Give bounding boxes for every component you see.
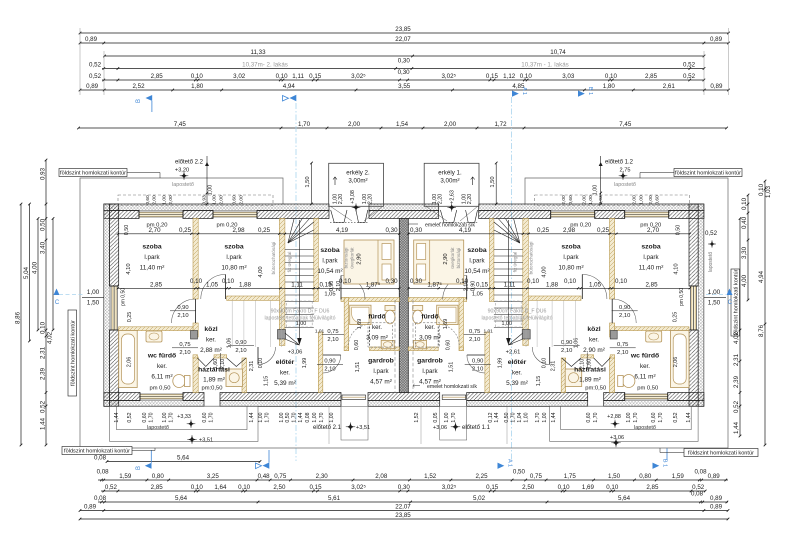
partition kozl-haztartasi p1 right [610,355,615,358]
canopy elotetto 2.2 annotation [175,156,214,205]
svg-text:5,64: 5,64 [175,495,188,502]
svg-text:pm 0,50: pm 0,50 [121,288,127,306]
shower furdo right [437,305,458,324]
svg-text:1,70: 1,70 [658,412,664,422]
svg-text:+3,20: +3,20 [175,168,189,174]
svg-text:8,86: 8,86 [15,311,22,324]
dimension line top 11,33 / 10,74 [103,49,705,57]
svg-text:0,60: 0,60 [655,195,661,205]
svg-text:3,09 m²: 3,09 m² [366,335,388,342]
balcony erkely 1 right [424,163,479,221]
column right 2 [522,330,530,340]
svg-text:2,25: 2,25 [475,473,488,480]
svg-text:szoba: szoba [320,247,339,254]
right margin detail chain [741,194,749,302]
svg-text:0,30: 0,30 [385,227,398,234]
svg-text:1,80: 1,80 [191,83,204,90]
svg-text:üvegkorlát: üvegkorlát [350,247,355,269]
dimension line top 23,85 [79,26,730,34]
svg-text:l.park: l.park [563,254,579,261]
level mark canopy right lower [613,439,620,446]
svg-text:2,88 m²: 2,88 m² [200,347,222,354]
column right 1 [610,331,617,340]
section marker C right [706,289,733,307]
svg-text:2,50: 2,50 [273,484,286,491]
svg-text:4,10: 4,10 [674,263,680,274]
level mark balcony right [449,204,455,210]
svg-text:biztonsági: biztonsági [344,248,349,269]
svg-text:3,25: 3,25 [207,473,220,480]
svg-text:bútorozhatósági: bútorozhatósági [529,242,534,275]
section marker pair top [283,95,297,101]
room label előtér [274,359,296,387]
svg-text:2,10: 2,10 [336,281,342,292]
svg-text:2,90: 2,90 [357,253,363,264]
svg-text:1,70: 1,70 [319,412,325,422]
svg-text:0,89: 0,89 [708,473,721,480]
partition szoba3 bottom right [408,298,466,302]
svg-text:0,90: 0,90 [324,359,335,365]
shower furdo left [350,305,371,324]
svg-text:1,88: 1,88 [546,282,559,289]
partition szoba wall right a [610,219,615,300]
svg-text:1,44: 1,44 [249,412,255,422]
door szoba3 right [443,276,467,300]
left margin chain 4,00 [32,217,40,331]
svg-text:0,52: 0,52 [89,73,102,80]
svg-text:0,89: 0,89 [710,504,723,511]
partition kozl-haztartasi p2 right [581,355,594,358]
svg-text:0,75: 0,75 [617,342,628,348]
extension lines kozl right [526,301,576,348]
svg-text:3,02⁵: 3,02⁵ [441,73,456,80]
svg-text:2,85: 2,85 [151,73,164,80]
svg-text:emelet homlokzati sík: emelet homlokzati sík [427,384,477,390]
svg-text:0,10: 0,10 [191,73,204,80]
window left wall [110,286,119,330]
svg-text:2,39: 2,39 [40,367,47,380]
svg-text:1,00: 1,00 [87,289,100,296]
svg-text:1,04: 1,04 [517,412,523,422]
svg-text:földszint homlokzati kontúr: földszint homlokzati kontúr [64,449,130,455]
svg-text:pm 0,50: pm 0,50 [679,288,685,306]
dimension line top 22,07 [79,36,730,44]
svg-text:0,15: 0,15 [486,73,499,80]
svg-text:2,10: 2,10 [617,350,628,356]
bathtub wc furdo left [119,331,138,388]
svg-text:1,01: 1,01 [315,329,325,335]
svg-text:1,70: 1,70 [633,412,639,422]
svg-text:5,39 m²: 5,39 m² [506,380,528,387]
svg-text:0,52: 0,52 [733,400,740,413]
svg-text:B 1: B 1 [587,87,593,95]
svg-text:l.park: l.park [373,368,389,375]
svg-text:2,20: 2,20 [338,194,344,205]
svg-text:0,08: 0,08 [97,469,110,476]
svg-text:+3,51: +3,51 [199,438,213,444]
level mark canopy left upper [188,421,194,427]
svg-text:4,00: 4,00 [258,266,264,277]
fakro skylight note right [482,309,553,322]
svg-text:2,85: 2,85 [645,282,658,289]
svg-text:ker.: ker. [157,363,167,370]
section marker A1 bottom [498,459,513,469]
svg-text:wc fürdő: wc fürdő [147,353,176,360]
svg-text:0,75: 0,75 [274,473,287,480]
svg-text:2,00: 2,00 [168,195,174,205]
svg-text:B: B [136,99,142,103]
svg-text:11,40 m²: 11,40 m² [639,265,664,272]
svg-text:1,44: 1,44 [686,412,692,422]
svg-text:előtető 1.2: előtető 1.2 [605,160,634,166]
svg-text:l.park: l.park [643,254,659,261]
svg-text:2,06: 2,06 [673,357,679,368]
svg-text:földszint homlokzati kontúr: földszint homlokzati kontúr [71,320,77,386]
svg-text:5,39 m²: 5,39 m² [274,380,296,387]
svg-text:1,75: 1,75 [564,473,577,480]
dimension line top segment chain [79,83,730,91]
svg-text:4,00: 4,00 [741,274,748,287]
flat roof dashed outline left [118,182,273,206]
emelet homlokzati sik dashed line left [394,300,396,393]
svg-text:1,70: 1,70 [209,412,215,422]
svg-text:4,02: 4,02 [47,331,54,344]
level mark eloter left [288,350,303,356]
window szoba right-2 top [551,211,595,219]
svg-text:ker.: ker. [512,370,522,377]
label kozepszint homlokzati kontur left rotated [68,310,77,396]
svg-text:23,85: 23,85 [395,26,411,33]
partition szoba wall left a [193,219,198,300]
svg-text:l.park: l.park [322,258,338,265]
svg-text:1,70: 1,70 [511,412,517,422]
svg-text:0,15: 0,15 [486,484,499,491]
svg-text:0,30: 0,30 [398,69,411,76]
svg-text:0,50: 0,50 [124,225,130,236]
section marker A1 top [512,87,527,97]
svg-text:B: B [136,466,142,470]
svg-text:3,02: 3,02 [233,73,246,80]
svg-text:0,10: 0,10 [40,321,47,334]
section marker B bottom [136,450,152,470]
svg-text:0,89: 0,89 [86,83,99,90]
level mark eloter right [506,350,521,356]
svg-text:pm 0,20: pm 0,20 [147,223,168,229]
svg-text:0,89: 0,89 [710,495,723,502]
extension lines kozl left [232,301,282,348]
svg-text:0,60: 0,60 [142,412,148,422]
svg-text:2,85: 2,85 [645,73,658,80]
stair skylight dashed right [496,301,522,327]
balcony height dim right [490,162,498,206]
svg-text:A 1: A 1 [507,459,513,467]
room label szoba [317,247,342,275]
svg-text:előtér: előtér [508,359,527,366]
svg-text:0,08: 0,08 [694,469,707,476]
door szoba3 left [341,276,365,300]
svg-text:11,40 m²: 11,40 m² [140,265,165,272]
svg-text:2,10: 2,10 [235,348,246,354]
svg-text:0,48: 0,48 [258,473,271,480]
partition furdo-gardrob left e [370,347,400,351]
svg-text:1,00: 1,00 [162,412,168,422]
svg-text:2,00: 2,00 [648,195,654,205]
svg-text:0,52: 0,52 [89,62,102,69]
svg-text:0,15: 0,15 [309,73,322,80]
svg-text:1,59: 1,59 [119,473,132,480]
svg-text:2,10: 2,10 [619,313,630,319]
window wc furdo right bottom [625,393,668,401]
svg-text:1,60: 1,60 [587,359,593,370]
svg-text:4,94: 4,94 [758,270,765,283]
room label szoba [639,244,664,272]
room label közl [583,326,605,354]
dimension line bottom 22,07 [79,504,730,512]
svg-text:1,44: 1,44 [494,412,500,422]
svg-text:C: C [55,300,60,306]
room label gardrob [368,358,394,386]
svg-text:fürdő: fürdő [421,314,438,321]
svg-text:1,70: 1,70 [451,412,457,422]
label foldszint homlokzati kontur right rotated [731,269,740,336]
accordion door haztartasi right 1 [594,358,611,367]
stair skylight dashed left [287,301,313,327]
svg-text:0,10: 0,10 [558,484,571,491]
emelet homlokzati sik dashed line right [412,300,414,393]
door szoba2 right [582,274,607,299]
svg-text:+3,08: +3,08 [350,190,356,204]
svg-text:B 1: B 1 [662,459,668,467]
svg-text:2,20: 2,20 [467,194,473,205]
svg-text:1,64: 1,64 [214,484,227,491]
svg-text:1,00: 1,00 [708,289,721,296]
svg-text:pm:0,50: pm:0,50 [202,386,223,392]
svg-text:l.park: l.park [422,368,438,375]
svg-text:0,30: 0,30 [410,278,423,285]
svg-text:1,50: 1,50 [305,176,311,187]
svg-text:pm 0,20: pm 0,20 [640,223,661,229]
svg-text:4,02: 4,02 [733,331,740,344]
dimension line top lakas widths [89,58,705,70]
sink wc furdo left [146,331,162,342]
svg-text:10,54 m²: 10,54 m² [464,268,489,275]
svg-text:0,75: 0,75 [327,329,338,335]
svg-text:lapostető: lapostető [614,182,636,188]
parapet labels bottom [150,386,659,392]
svg-text:1,00: 1,00 [588,195,594,205]
svg-text:2,10: 2,10 [179,350,190,356]
svg-text:1,11: 1,11 [504,282,516,289]
svg-text:1,00: 1,00 [161,195,167,205]
left margin detail chain [40,159,48,447]
svg-text:A 1: A 1 [521,87,527,95]
svg-text:0,90: 0,90 [235,340,246,346]
svg-text:l.park: l.park [144,254,160,261]
svg-text:22,07: 22,07 [395,36,411,43]
svg-text:biztonsági: biztonsági [456,248,461,269]
svg-text:1,80: 1,80 [603,83,616,90]
svg-text:0,10: 0,10 [520,73,533,80]
svg-text:2,00: 2,00 [152,195,158,205]
dimension line bottom detail chain 1 [97,469,728,482]
svg-text:bútorozhatósági: bútorozhatósági [271,242,276,275]
washing machine left [226,369,243,387]
svg-text:2,52: 2,52 [132,83,145,90]
svg-text:1,44: 1,44 [733,421,740,434]
accordion door haztartasi left 1 [198,358,215,367]
svg-text:0,25: 0,25 [258,227,271,234]
svg-text:ker.: ker. [640,363,650,370]
dimension line top detail chain [89,69,705,81]
svg-text:0,50: 0,50 [40,218,47,231]
svg-text:0,40: 0,40 [741,216,748,229]
door furdo left [349,325,370,346]
partition furdo-gardrob right e [408,347,438,351]
svg-text:wc fürdő: wc fürdő [630,353,659,360]
svg-text:10,74: 10,74 [550,49,566,56]
svg-text:1,15: 1,15 [536,376,542,387]
svg-text:0,25: 0,25 [179,227,192,234]
partition wc wall upper right [610,323,615,337]
svg-text:2,31: 2,31 [733,353,740,366]
svg-text:0,10: 0,10 [258,358,264,369]
svg-text:0,50: 0,50 [676,225,682,236]
svg-text:0,25: 0,25 [597,227,610,234]
balcony door right unit [440,210,456,223]
svg-text:3,30: 3,30 [741,246,748,259]
svg-text:fürdő: fürdő [368,314,385,321]
svg-text:2,20: 2,20 [438,194,444,205]
svg-text:0,52: 0,52 [683,73,696,80]
svg-text:2,85: 2,85 [646,484,659,491]
svg-text:ker.: ker. [206,337,216,344]
svg-text:0,05: 0,05 [433,412,439,422]
partition furdo side right [459,298,464,351]
svg-text:1,00: 1,00 [329,412,335,422]
glass rail note right [450,242,534,275]
porch elotetto 2.1 outline [341,406,368,440]
entrance door right [442,395,466,400]
svg-text:2,31: 2,31 [249,361,255,372]
level mark balcony left [353,204,359,210]
label foldszint homlokzati kontur top-right [674,169,742,177]
toilet wc furdo left [173,375,185,388]
svg-text:2,10: 2,10 [464,281,470,292]
svg-text:szoba: szoba [561,244,580,251]
svg-text:2,10: 2,10 [580,359,586,370]
svg-text:2,00: 2,00 [561,195,567,205]
svg-text:lapostető tetőablak felülvilág: lapostető tetőablak felülvilágító [482,316,553,322]
toilet wc furdo right [623,375,635,388]
svg-text:1,87⁵: 1,87⁵ [366,282,381,289]
svg-text:10,54 m²: 10,54 m² [317,268,342,275]
svg-text:1,00: 1,00 [444,412,450,422]
svg-text:0,50: 0,50 [504,412,510,422]
svg-text:0,25: 0,25 [673,312,679,323]
svg-text:0,89: 0,89 [84,504,97,511]
partition szoba1-wc left [119,327,193,331]
svg-text:1,05: 1,05 [589,282,602,289]
svg-text:0,60: 0,60 [568,195,574,205]
svg-text:1,51: 1,51 [355,362,361,373]
room label fürdő [366,314,388,342]
svg-text:fix üvegfal: fix üvegfal [287,252,292,273]
svg-text:2,31: 2,31 [551,361,557,372]
svg-text:3,02⁵: 3,02⁵ [351,73,366,80]
room label közl [200,326,222,354]
svg-text:0,90: 0,90 [177,305,188,311]
label elotetto 2.1 [313,425,370,431]
svg-text:l.park: l.park [226,254,242,261]
svg-text:földszint homlokzati kontúr: földszint homlokzati kontúr [60,171,126,177]
svg-text:1,00: 1,00 [626,412,632,422]
central party wall [399,219,408,393]
svg-text:0,60: 0,60 [202,412,208,422]
left margin chain 4,02 [47,217,55,344]
sink wc furdo right [646,331,662,342]
balcony erkely 2 left [329,163,384,221]
svg-text:0,10: 0,10 [758,183,765,196]
svg-text:0,25: 0,25 [537,227,550,234]
svg-text:1,05: 1,05 [324,292,335,298]
svg-text:3,55: 3,55 [398,83,411,90]
porch elotetto 1.1 outline [440,406,467,440]
svg-text:3,09 m²: 3,09 m² [419,335,441,342]
section line A1 [295,103,297,461]
svg-text:lapostető: lapostető [172,182,194,188]
svg-text:közl: közl [587,326,600,333]
svg-text:2,10: 2,10 [220,359,226,370]
svg-text:1,89 m²: 1,89 m² [203,377,225,384]
svg-text:1,00: 1,00 [212,195,218,205]
balcony door left unit [331,210,347,223]
svg-text:0,75: 0,75 [469,329,480,335]
svg-text:10,37m - 1. lakás: 10,37m - 1. lakás [521,62,568,69]
svg-text:0,10: 0,10 [741,197,748,210]
column left 2 [278,330,286,340]
label foldszint homlokzati kontur bottom-right [684,449,758,457]
svg-text:0,10: 0,10 [542,358,548,369]
svg-text:+3,51: +3,51 [356,425,370,431]
glass rail note left [271,242,355,275]
svg-text:4,10: 4,10 [126,263,132,274]
svg-text:0,52: 0,52 [127,412,133,422]
svg-text:8,76: 8,76 [758,324,765,337]
svg-text:pm 0,50: pm 0,50 [637,386,658,392]
svg-text:ker.: ker. [372,324,382,331]
svg-text:2,10: 2,10 [472,367,483,373]
door gardrob left [323,355,341,373]
svg-text:0,10: 0,10 [276,73,289,80]
bed szoba right [414,240,464,284]
svg-text:1,70: 1,70 [535,412,541,422]
door gardrob right [467,355,485,373]
svg-text:1,88: 1,88 [239,282,252,289]
svg-text:1,03: 1,03 [765,185,772,198]
section marker B1 top [578,87,593,97]
svg-text:1,87⁵: 1,87⁵ [427,282,442,289]
svg-text:ker.: ker. [280,370,290,377]
svg-text:2,00: 2,00 [218,195,224,205]
balcony height dim left [305,162,313,206]
svg-text:1,12: 1,12 [503,73,516,80]
svg-text:2,50: 2,50 [522,484,535,491]
level mark elotetto 2.2 [181,173,187,179]
dimension line bottom 23,85 [79,512,730,520]
window szoba left-1 top [139,211,183,219]
svg-text:0,60: 0,60 [145,195,151,205]
bed pillows left [382,244,391,260]
